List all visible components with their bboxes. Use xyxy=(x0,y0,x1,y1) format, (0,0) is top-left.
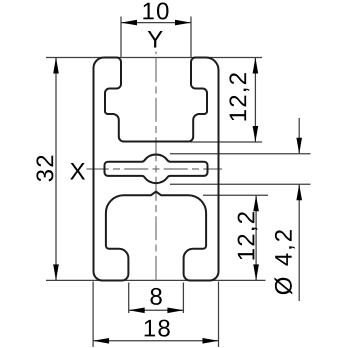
dim 8 arrows xyxy=(129,308,145,314)
value 10 xyxy=(143,3,168,20)
profile outline with top T-slot cavity and bottom cavity xyxy=(93,57,218,280)
thin dimension / extension lines xyxy=(46,17,311,348)
dim 8 xyxy=(128,283,130,314)
value 32 xyxy=(36,156,53,182)
dim 32 xyxy=(46,57,262,59)
dim 10 arrows xyxy=(121,20,137,26)
dim 4,2 extension (circle tangents) xyxy=(170,153,311,155)
dimension texts (as vector paths, Liberation Sans 24px) xyxy=(36,3,294,337)
dim 18 arrows xyxy=(93,338,109,344)
dim 32 arrows xyxy=(53,58,59,74)
dim 18 xyxy=(92,282,94,348)
horizontal centreline xyxy=(87,168,223,170)
value 8 xyxy=(150,288,161,305)
dim 12,2 lower xyxy=(203,194,268,196)
value diameter 4,2 xyxy=(274,230,294,294)
value 12,2 upper xyxy=(229,73,249,120)
dim 12,2 upper xyxy=(190,141,262,143)
axis label X xyxy=(70,163,85,180)
dim 12,2 upper arrows xyxy=(253,58,259,74)
value 12,2 lower xyxy=(238,212,258,259)
axis label Y xyxy=(148,31,163,48)
dim 10 xyxy=(120,17,122,58)
dim 12,2 lower arrows xyxy=(253,195,259,211)
vertical centreline xyxy=(155,52,157,284)
centre lines xyxy=(87,52,223,284)
value 18 xyxy=(145,320,170,337)
arrowheads xyxy=(53,20,302,344)
central screw-channel: horizontal slot with centre bore xyxy=(105,154,208,183)
dim 4,2 arrows outside xyxy=(296,138,302,154)
